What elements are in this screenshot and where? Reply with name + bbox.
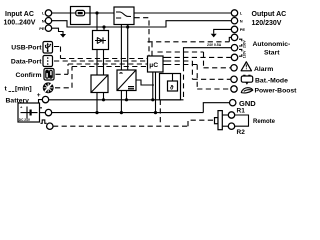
minus bus wire bbox=[52, 112, 204, 114]
node inverter plus bbox=[125, 98, 128, 101]
terminal output N bbox=[231, 18, 242, 24]
wire charger pin to L bbox=[96, 13, 98, 31]
battery module box DC 24V bbox=[18, 103, 40, 122]
node N charger tap bbox=[102, 25, 105, 28]
terminal autonomic T1 bbox=[231, 34, 237, 40]
svg-text:Start: Start bbox=[264, 49, 280, 56]
terminal L input bbox=[42, 10, 52, 16]
filter box F1 bbox=[71, 7, 91, 25]
terminal output L bbox=[231, 10, 242, 16]
USB port icon bbox=[43, 42, 53, 54]
wire converter1 to plus bus bbox=[103, 93, 105, 100]
converter U1 DC/DC bbox=[91, 75, 108, 93]
svg-text:230V: 230V bbox=[243, 39, 247, 48]
dashed row power-boost bbox=[166, 65, 230, 90]
dashed row bat-mode bbox=[166, 61, 230, 79]
svg-text:PE: PE bbox=[240, 27, 246, 32]
terminal PE input bbox=[39, 25, 51, 31]
node L charger tap bbox=[95, 11, 98, 14]
svg-text:Remote: Remote bbox=[253, 119, 276, 125]
data port icon bbox=[43, 56, 53, 67]
remote connector plug bbox=[215, 111, 223, 130]
svg-text:Output AC: Output AC bbox=[252, 11, 287, 18]
terminal signal output bbox=[47, 123, 53, 129]
dashed 24V continuation bbox=[183, 66, 185, 100]
wire T1 stub bbox=[229, 37, 231, 41]
solid 24V wire to T2 bbox=[184, 48, 232, 66]
dashed row to autonomic T1 bbox=[148, 41, 230, 43]
terminal output PE bbox=[231, 26, 245, 32]
dashed bus row USB bbox=[54, 47, 148, 59]
terminal autonomic T2 bbox=[231, 45, 237, 51]
wire converter1 to minus bus bbox=[96, 93, 98, 113]
dashed bus row Confirm bbox=[56, 64, 148, 74]
battery module box bbox=[160, 74, 181, 100]
svg-text:Data-Port: Data-Port bbox=[11, 58, 42, 65]
micro-controller U3 uC bbox=[148, 56, 164, 72]
relay K1 transfer switch bbox=[114, 7, 134, 25]
svg-text:N: N bbox=[240, 18, 243, 23]
dashed bus row Data bbox=[54, 60, 148, 62]
wire relay bottom pin to inverter bbox=[120, 25, 122, 71]
node uC plus bbox=[151, 98, 154, 101]
wire PE input bbox=[52, 28, 63, 34]
terminal bat-mode bbox=[231, 76, 237, 82]
wire N input run bbox=[52, 21, 232, 27]
temperature sensor box theta bbox=[168, 74, 178, 92]
svg-text:DC 24V: DC 24V bbox=[19, 118, 31, 122]
svg-text:[min]: [min] bbox=[15, 86, 32, 93]
wire charger to converter1 right bbox=[103, 50, 105, 76]
svg-text:120/230V: 120/230V bbox=[252, 20, 282, 27]
terminal power-boost bbox=[231, 86, 237, 92]
inverter U2 DC/AC bbox=[117, 70, 136, 91]
wire uC to minus bus bbox=[155, 72, 157, 113]
alarm warning triangle bbox=[241, 62, 251, 71]
svg-text:µC: µC bbox=[149, 62, 158, 69]
wire minus bus to GND terminal bbox=[203, 103, 229, 113]
wire connector to R1 bbox=[222, 114, 228, 116]
svg-text:Confirm: Confirm bbox=[15, 72, 41, 79]
ground input PE arrow bbox=[60, 34, 66, 38]
wire charger pin to N bbox=[103, 27, 105, 31]
bracket 120V bbox=[239, 49, 247, 58]
dashed battery module down line bbox=[159, 100, 161, 126]
dashed bus row timer bbox=[55, 67, 148, 88]
terminal battery minus bbox=[40, 109, 52, 115]
terminal GND bbox=[230, 100, 236, 106]
dashed alarm row bbox=[158, 52, 231, 68]
remote jumper wire bbox=[235, 115, 249, 126]
dashed row to T3 bbox=[166, 56, 231, 58]
wire uC to plus bus bbox=[152, 72, 154, 100]
wire inverter to plus bus bbox=[126, 91, 128, 100]
power-boost icon bbox=[241, 88, 253, 93]
wire filter to relay bbox=[90, 12, 114, 14]
wire inverter right to uC column bbox=[136, 80, 154, 85]
node uC minus bbox=[154, 111, 157, 114]
wire output PE to ground bbox=[214, 29, 232, 33]
ground output PE arrow bbox=[211, 34, 217, 38]
terminal N input bbox=[42, 18, 52, 24]
svg-text:N: N bbox=[42, 18, 45, 23]
uC right pins bbox=[163, 57, 166, 64]
node N inverter tap bbox=[126, 25, 129, 28]
terminal R1 bbox=[228, 112, 234, 118]
terminal alarm bbox=[231, 65, 237, 71]
svg-text:Bat.-Mode: Bat.-Mode bbox=[255, 77, 288, 84]
dashed riser uC to T1 row bbox=[151, 42, 153, 56]
rectifier charger D1 bbox=[93, 31, 109, 50]
signal pulse icon bbox=[41, 120, 47, 123]
node inverter minus bbox=[120, 111, 123, 114]
timer clock icon bbox=[43, 82, 54, 93]
terminal R2 bbox=[228, 123, 234, 129]
svg-text:Alarm: Alarm bbox=[254, 66, 273, 73]
bat-mode battery icon bbox=[241, 75, 252, 85]
bracket 230V bbox=[239, 39, 247, 48]
svg-text:100..240V: 100..240V bbox=[4, 20, 36, 27]
wire relay to output L bbox=[134, 12, 231, 14]
label Autonomic-Start bbox=[253, 41, 291, 56]
svg-text:120V: 120V bbox=[243, 50, 247, 59]
svg-text:+: + bbox=[37, 92, 41, 99]
svg-text:Autonomic-: Autonomic- bbox=[253, 41, 291, 48]
wire charger to converter1 left bbox=[96, 50, 98, 76]
node converter1 plus bbox=[102, 98, 105, 101]
svg-text:Power-Boost: Power-Boost bbox=[255, 87, 298, 94]
dashed signal line bottom bbox=[53, 125, 188, 127]
confirm switch icon bbox=[44, 69, 54, 81]
wire connector to R2 bbox=[222, 125, 228, 127]
svg-text:24V 0.5A: 24V 0.5A bbox=[207, 43, 222, 47]
svg-text:R1: R1 bbox=[237, 108, 246, 115]
svg-text:R2: R2 bbox=[237, 129, 246, 136]
wire relay bottom pin to N bbox=[127, 25, 129, 71]
plus bus wire bbox=[49, 99, 184, 101]
label Input AC 100..240V bbox=[4, 11, 36, 27]
dashed signal riser to remote bbox=[188, 120, 215, 126]
terminal autonomic T3 bbox=[231, 54, 237, 60]
label Output AC 120/230V bbox=[252, 11, 287, 27]
terminal battery plus bbox=[39, 96, 49, 103]
wire L input to filter bbox=[52, 12, 71, 14]
svg-text:PE: PE bbox=[39, 26, 45, 31]
svg-text:USB-Port: USB-Port bbox=[11, 44, 42, 51]
svg-text:Input AC: Input AC bbox=[5, 11, 34, 18]
node converter1 minus bbox=[95, 111, 98, 114]
wire inverter to minus bus bbox=[120, 91, 122, 113]
battery minus sign bbox=[38, 107, 42, 108]
svg-text:ϑ: ϑ bbox=[170, 85, 174, 91]
control line relay to uC dashed bbox=[135, 18, 150, 56]
